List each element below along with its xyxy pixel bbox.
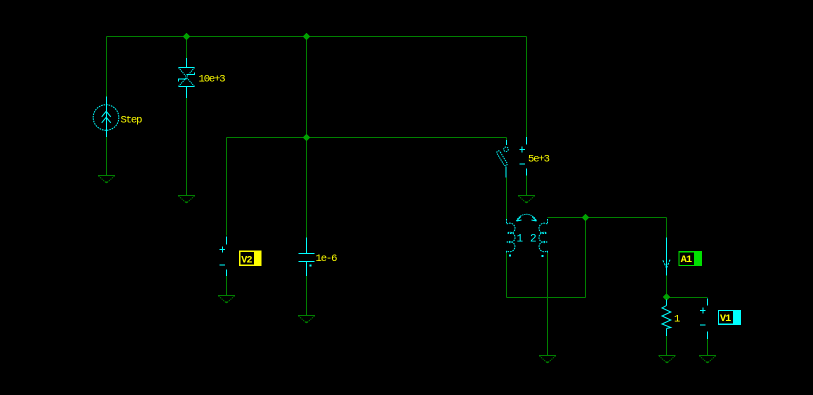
resistor R1: [662, 300, 671, 337]
wire diac to ground: [186, 98, 188, 196]
ammeter A1 label box: [678, 251, 702, 266]
transformer T1 coupling arc: [517, 214, 537, 221]
wire secondary bottom to ground: [547, 253, 549, 356]
ground G7 (resistor): [659, 356, 676, 364]
diac D1 bottom lead: [186, 87, 188, 99]
svg-text:V1: V1: [720, 314, 731, 325]
wire V2 to ground: [226, 276, 228, 296]
wire diac top lead: [186, 37, 188, 59]
wire V2 riser: [226, 138, 228, 236]
svg-text:10e+3: 10e+3: [199, 73, 226, 85]
wire A1 bottom lead: [666, 276, 668, 294]
svg-text:1: 1: [674, 313, 680, 325]
transformer T1 primary dot: [509, 255, 511, 257]
wire capacitor to ground: [306, 276, 308, 316]
ground G4 (V2 probe): [218, 296, 235, 304]
source VDC 5e+3 symbol: [520, 137, 527, 176]
node junction secondary top: [582, 214, 588, 220]
probe V2 symbol: [220, 237, 227, 277]
node junction top rail x=306: [303, 33, 309, 39]
capacitor C1 polarity dot: [310, 265, 312, 267]
current source IS1 leads: [106, 97, 108, 138]
current source IS1 circle: [93, 105, 119, 131]
ground G1 (current source): [98, 176, 115, 184]
probe V1 label box: [718, 310, 741, 325]
wire VDC source to ground: [526, 176, 528, 196]
probe V2 label box: [239, 251, 262, 267]
wire resistor to ground: [666, 336, 668, 356]
switch S1 top contact circle: [504, 147, 509, 152]
wire bottom link: [507, 297, 586, 299]
wire bottom link riser: [585, 218, 587, 298]
wire left riser to current source: [106, 37, 108, 97]
svg-text:V2: V2: [241, 255, 252, 266]
node junction A1 bottom: [663, 294, 669, 300]
diac D1 body: [178, 68, 195, 87]
wire mid rail: [227, 137, 507, 139]
svg-text:1: 1: [517, 234, 524, 246]
ground G8 (V1 probe): [699, 356, 716, 364]
wire V1 to ground: [707, 339, 709, 356]
transformer T1 secondary winding: [539, 219, 548, 253]
capacitor C1: [299, 238, 315, 277]
wire primary bottom drop: [506, 253, 508, 298]
wire current source to ground: [106, 137, 108, 176]
svg-text:1e-6: 1e-6: [316, 253, 338, 265]
ground G5 (capacitor): [298, 316, 315, 324]
ground G2 (diac): [178, 196, 195, 204]
wire switch to transformer primary: [506, 178, 508, 220]
probe V1 symbol: [700, 299, 708, 340]
diac D1 top lead: [186, 58, 188, 68]
ammeter A1 arrowhead: [663, 260, 670, 268]
node junction mid rail x=306: [303, 134, 309, 140]
current source IS1 arrows: [102, 111, 111, 123]
wire A1 top lead: [666, 218, 668, 240]
ground G3 (VDC source): [518, 196, 535, 204]
switch S1 lever: [497, 151, 507, 166]
wire switch drop: [506, 138, 508, 141]
switch S1 bottom lead: [505, 167, 507, 178]
svg-text:5e+3: 5e+3: [528, 154, 550, 166]
wire secondary top to A1 corner: [548, 217, 667, 219]
ground G6 (secondary): [539, 356, 556, 364]
node junction top rail x=186: [183, 33, 189, 39]
switch S1 top lead: [506, 140, 508, 145]
svg-text:Step: Step: [121, 115, 143, 127]
ammeter A1 line: [666, 238, 668, 276]
wire right riser to VDC source: [526, 37, 528, 138]
svg-text:2: 2: [530, 234, 537, 246]
wire capacitor riser: [306, 37, 308, 238]
transformer T1 secondary dot: [542, 255, 544, 257]
transformer T1 primary winding: [507, 219, 516, 253]
wire top rail: [107, 36, 527, 38]
wire junction to V1: [667, 297, 708, 299]
svg-text:A1: A1: [681, 255, 692, 266]
